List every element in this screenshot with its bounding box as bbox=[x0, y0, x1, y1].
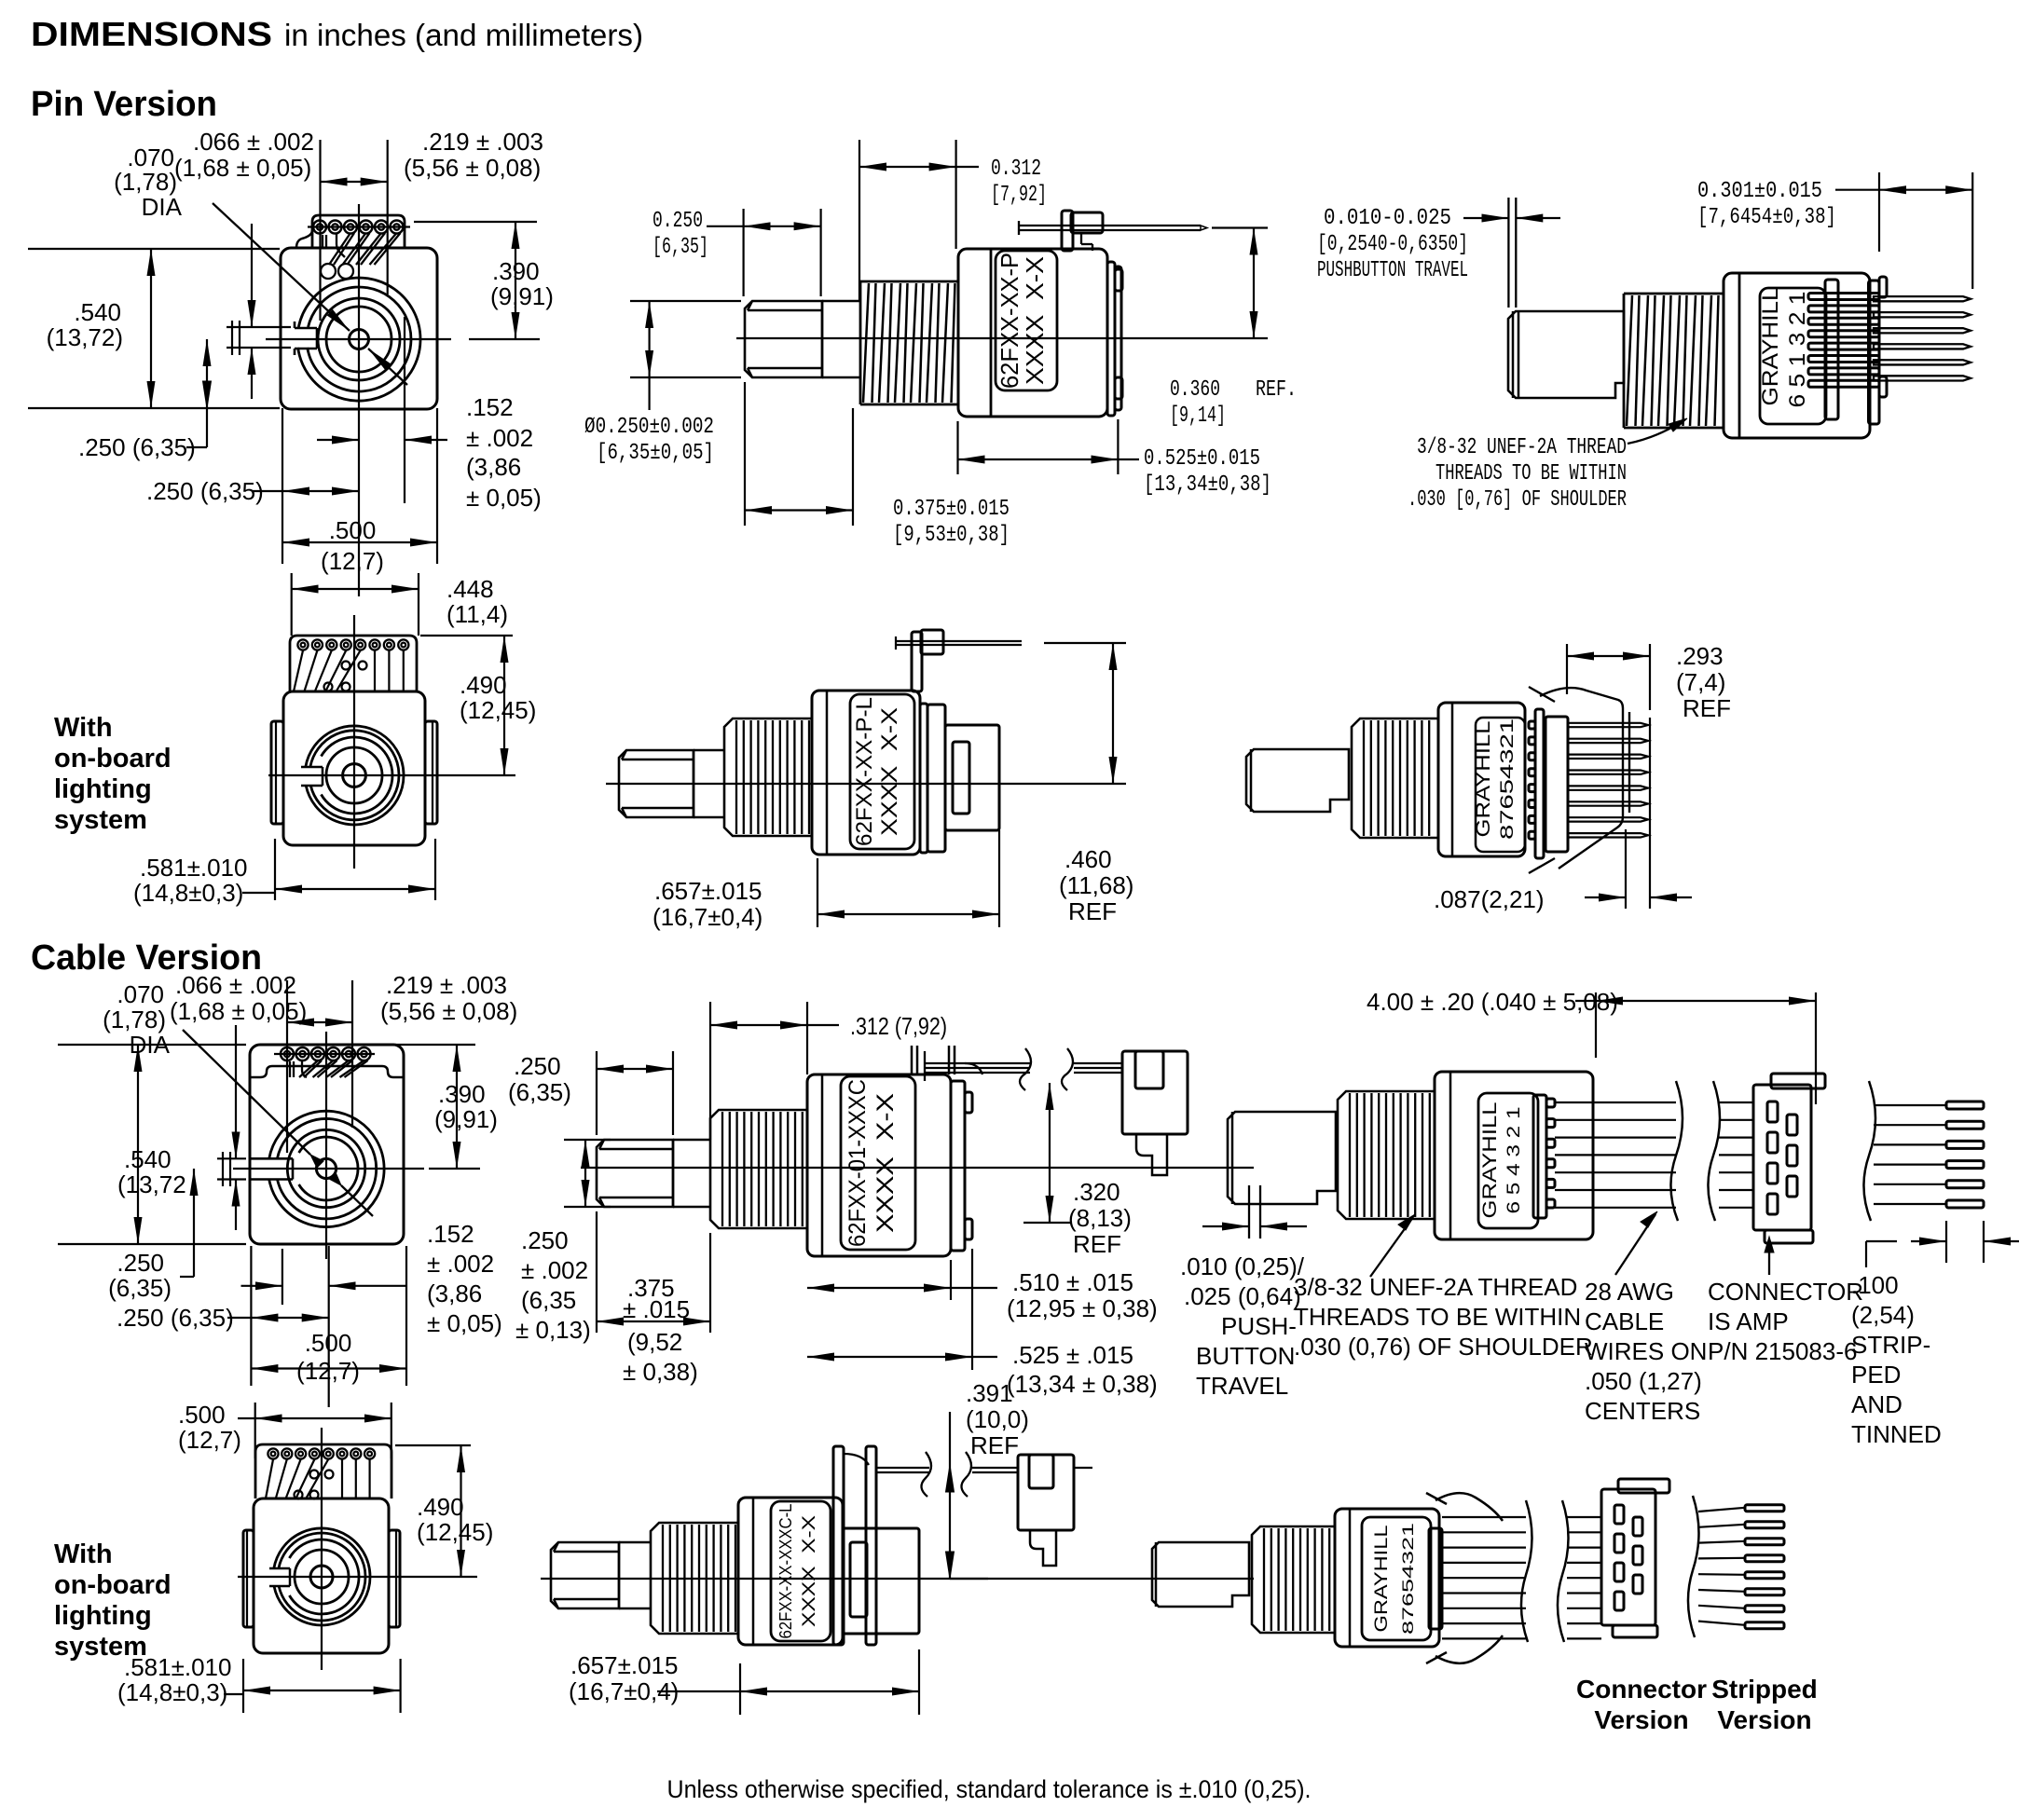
cable light right threads bbox=[1252, 1526, 1335, 1633]
pin right pin bars bbox=[1808, 294, 1879, 300]
light right clips bbox=[1540, 688, 1623, 869]
svg-text:GRAYHILL: GRAYHILL bbox=[1372, 1526, 1392, 1633]
dim .448 lines bbox=[291, 573, 293, 636]
svg-text:(7,4): (7,4) bbox=[1676, 668, 1725, 696]
svg-text:0.375±0.015: 0.375±0.015 bbox=[893, 497, 1010, 522]
cable front circles bbox=[316, 1158, 336, 1178]
dim .540 lines bbox=[28, 248, 280, 250]
light side right plates bbox=[920, 704, 927, 853]
cable light right body bbox=[1335, 1509, 1439, 1647]
svg-text:[6,35±0,05]: [6,35±0,05] bbox=[597, 441, 714, 466]
dim .320 lines bbox=[1049, 1083, 1051, 1223]
cable front top line bbox=[250, 1066, 404, 1077]
svg-text:TRAVEL: TRAVEL bbox=[1196, 1372, 1288, 1400]
pin side threads bbox=[860, 281, 958, 404]
dim 4.00 lines bbox=[1595, 992, 1597, 1058]
svg-text:[9,14]: [9,14] bbox=[1170, 404, 1226, 429]
svg-text:lighting: lighting bbox=[54, 1601, 152, 1631]
dim .500 lines bbox=[436, 408, 438, 564]
thread note row3 leader bbox=[1370, 1217, 1413, 1277]
cable light right wires bbox=[1442, 1516, 1526, 1518]
cable light side body bbox=[738, 1498, 843, 1645]
cable front keyway bbox=[250, 1157, 293, 1160]
svg-text:0.525±0.015: 0.525±0.015 bbox=[1144, 446, 1260, 472]
cable right cable wires bbox=[1555, 1102, 1676, 1103]
light right pins bbox=[1529, 721, 1535, 729]
pushbutton rod bbox=[1019, 225, 1201, 226]
svg-text:.152: .152 bbox=[427, 1220, 474, 1248]
light front pcb bbox=[290, 636, 417, 691]
svg-text:.500: .500 bbox=[178, 1401, 226, 1429]
svg-text:62FXX-XX-P-L: 62FXX-XX-P-L bbox=[852, 697, 877, 846]
cable front pins bbox=[281, 1047, 294, 1061]
svg-text:(13,72: (13,72 bbox=[117, 1170, 186, 1198]
cable side wire break bbox=[1020, 1048, 1031, 1090]
cable light right stripped wires bbox=[1698, 1508, 1745, 1512]
cable light side threads bbox=[651, 1523, 738, 1634]
svg-text:[7,6454±0,38]: [7,6454±0,38] bbox=[1697, 205, 1836, 230]
light side flat shaft bbox=[619, 750, 694, 817]
cable right connector bbox=[1753, 1085, 1811, 1230]
svg-text:.525 ± .015: .525 ± .015 bbox=[1012, 1341, 1133, 1369]
svg-text:(5,56 ± 0,08): (5,56 ± 0,08) bbox=[380, 997, 517, 1025]
cable light right wires 2 bbox=[1567, 1516, 1601, 1518]
svg-text:(2,54): (2,54) bbox=[1851, 1301, 1915, 1329]
svg-text:(16,7±0,4): (16,7±0,4) bbox=[652, 903, 762, 931]
svg-text:.460: .460 bbox=[1065, 845, 1112, 873]
svg-text:(14,8±0,3): (14,8±0,3) bbox=[117, 1678, 227, 1706]
svg-text:.581±.010: .581±.010 bbox=[124, 1653, 231, 1681]
cable side top hook bbox=[965, 1063, 982, 1074]
svg-text:.540: .540 bbox=[124, 1145, 172, 1173]
dim .460 lines bbox=[1044, 642, 1126, 644]
light front pcb pins bbox=[297, 639, 308, 650]
svg-text:.250 (6,35): .250 (6,35) bbox=[117, 1304, 234, 1332]
svg-text:Ø0.250±0.002: Ø0.250±0.002 bbox=[584, 415, 714, 440]
cable side riser posts bbox=[911, 1046, 913, 1074]
light front pcb vias bbox=[342, 662, 350, 670]
svg-text:(13,34 ± 0,38): (13,34 ± 0,38) bbox=[1007, 1370, 1158, 1398]
light side body bbox=[812, 691, 920, 855]
svg-text:THREADS TO BE WITHIN: THREADS TO BE WITHIN bbox=[1294, 1303, 1581, 1331]
pin right pins bbox=[1874, 296, 1971, 301]
dim 0.250 shaft lines bbox=[742, 209, 744, 296]
svg-text:.500: .500 bbox=[305, 1329, 352, 1357]
svg-text:.087(2,21): .087(2,21) bbox=[1434, 885, 1545, 913]
light front body bbox=[283, 691, 425, 845]
pin side label panel bbox=[996, 251, 1057, 390]
svg-text:[9,53±0,38]: [9,53±0,38] bbox=[893, 523, 1010, 548]
cable side shaft bbox=[673, 1139, 710, 1142]
cable dim .390 lines bbox=[391, 1044, 475, 1046]
cable front body bbox=[250, 1045, 404, 1244]
light right threads bbox=[1352, 718, 1438, 838]
thread note leader bbox=[1628, 424, 1678, 444]
cable side threads bbox=[710, 1110, 807, 1228]
svg-text:.312 (7,92): .312 (7,92) bbox=[850, 1012, 947, 1040]
svg-text:CENTERS: CENTERS bbox=[1585, 1397, 1700, 1425]
cable front centerlines bbox=[325, 1032, 327, 1259]
svg-text:(6,35): (6,35) bbox=[108, 1274, 172, 1302]
svg-text:0.360: 0.360 bbox=[1170, 377, 1220, 403]
dim .375 row3 lines bbox=[596, 1211, 598, 1333]
pin right body bbox=[1724, 273, 1870, 438]
svg-text:(11,68): (11,68) bbox=[1059, 871, 1133, 899]
svg-text:.448: .448 bbox=[446, 575, 494, 603]
svg-text:(12,45): (12,45) bbox=[460, 696, 536, 724]
svg-text:± .002: ± .002 bbox=[466, 424, 533, 452]
light right shaft bbox=[1246, 749, 1349, 812]
svg-text:.490: .490 bbox=[460, 671, 507, 699]
light front pcb traces bbox=[294, 650, 303, 691]
cable light side big block bbox=[843, 1528, 919, 1634]
pin front view traces bbox=[322, 235, 323, 248]
svg-text:.250: .250 bbox=[514, 1052, 561, 1080]
svg-text:(10,0): (10,0) bbox=[966, 1405, 1029, 1433]
cable dim .500 lines bbox=[405, 1246, 407, 1386]
light side pushbutton bbox=[912, 632, 922, 691]
cable right pin squares bbox=[1533, 1095, 1546, 1218]
light side big plate bbox=[945, 725, 999, 830]
svg-text:28 AWG: 28 AWG bbox=[1585, 1278, 1674, 1306]
svg-text:.510 ± .015: .510 ± .015 bbox=[1012, 1268, 1133, 1296]
svg-text:.025 (0,64): .025 (0,64) bbox=[1184, 1282, 1301, 1310]
svg-text:.490: .490 bbox=[417, 1493, 464, 1521]
dim .250 dia row3 lines bbox=[564, 1139, 611, 1141]
svg-text:(12,7): (12,7) bbox=[296, 1357, 360, 1385]
svg-text:GRAYHILL: GRAYHILL bbox=[1479, 1102, 1501, 1219]
svg-text:(9,91): (9,91) bbox=[434, 1105, 498, 1133]
svg-text:± .015: ± .015 bbox=[623, 1295, 690, 1323]
dim 0.375 lines bbox=[744, 382, 746, 526]
svg-text:6 5 1 3 2 1: 6 5 1 3 2 1 bbox=[1785, 292, 1810, 408]
svg-text:system: system bbox=[54, 805, 147, 835]
svg-text:P/N 215083-6: P/N 215083-6 bbox=[1708, 1337, 1857, 1365]
svg-text:REF: REF bbox=[1073, 1230, 1121, 1258]
cable light right break 1 bbox=[1521, 1500, 1532, 1642]
cable dim .250 bottom lines bbox=[227, 1317, 251, 1319]
svg-text:PED: PED bbox=[1851, 1361, 1901, 1389]
svg-text:TINNED: TINNED bbox=[1851, 1420, 1942, 1448]
cable light front flange right bbox=[389, 1530, 400, 1627]
svg-text:87654321: 87654321 bbox=[1498, 718, 1518, 840]
dim .657 row2 lines bbox=[817, 858, 818, 927]
cable light front body bbox=[254, 1498, 389, 1653]
cable light right pin plate bbox=[1429, 1528, 1442, 1629]
cable light front keyway bbox=[269, 1567, 290, 1570]
svg-text:(9,52: (9,52 bbox=[627, 1328, 682, 1356]
svg-text:.540: .540 bbox=[74, 298, 121, 326]
svg-text:.657±.015: .657±.015 bbox=[570, 1651, 678, 1679]
cable right stripped break bbox=[1863, 1081, 1875, 1221]
light side centerline bbox=[606, 783, 1126, 785]
dim 0.360 lines bbox=[1212, 226, 1268, 228]
svg-text:(9,91): (9,91) bbox=[490, 282, 554, 310]
pin side shaft bbox=[822, 300, 860, 303]
light right body bbox=[1438, 703, 1525, 856]
dim .500 row4 lines bbox=[238, 1417, 255, 1419]
svg-text:XXXX X-X: XXXX X-X bbox=[1021, 256, 1049, 385]
cable front traces bbox=[289, 1061, 291, 1077]
svg-text:REF: REF bbox=[1068, 897, 1117, 925]
svg-text:.066 ± .002: .066 ± .002 bbox=[193, 128, 314, 156]
svg-text:.390: .390 bbox=[438, 1080, 486, 1108]
svg-text:3/8-32 UNEF-2A THREAD: 3/8-32 UNEF-2A THREAD bbox=[1294, 1273, 1577, 1301]
light front flange right bbox=[425, 721, 437, 824]
dim dia 0.250 lines bbox=[630, 300, 741, 302]
pin side centerline bbox=[736, 337, 1268, 339]
light right pcb plate bbox=[1545, 717, 1568, 852]
svg-text:± 0,38): ± 0,38) bbox=[623, 1358, 698, 1386]
cable light side centerline bbox=[541, 1578, 1254, 1580]
dim .312 row3 lines bbox=[709, 1002, 711, 1140]
pin side right plates bbox=[1107, 262, 1115, 416]
dim 0.301 lines bbox=[1878, 172, 1880, 252]
svg-text:[6,35]: [6,35] bbox=[652, 235, 708, 260]
svg-text:BUTTON: BUTTON bbox=[1196, 1342, 1295, 1370]
svg-text:AND: AND bbox=[1851, 1390, 1903, 1418]
svg-text:.219 ± .003: .219 ± .003 bbox=[422, 128, 543, 156]
svg-text:(6,35): (6,35) bbox=[508, 1078, 571, 1106]
cable side label panel bbox=[841, 1076, 915, 1250]
svg-text:± 0,05): ± 0,05) bbox=[427, 1309, 502, 1337]
svg-text:DIA: DIA bbox=[142, 193, 183, 221]
svg-text:± .002: ± .002 bbox=[427, 1250, 494, 1278]
dim .250 row3 lines bbox=[596, 1051, 598, 1135]
svg-text:(11,4): (11,4) bbox=[446, 600, 508, 628]
cable side tabs bbox=[965, 1092, 972, 1113]
light side threads bbox=[724, 718, 812, 836]
light front centerlines bbox=[353, 615, 355, 869]
cable right break bbox=[1670, 1081, 1683, 1221]
cable right shaft bbox=[1228, 1112, 1336, 1204]
dim .581 row2 lines bbox=[242, 892, 275, 894]
light front flange left bbox=[271, 721, 283, 824]
light side shaft bbox=[694, 749, 724, 752]
svg-text:6 5 4 3 2 1: 6 5 4 3 2 1 bbox=[1504, 1107, 1524, 1214]
svg-text:XXXX X-X: XXXX X-X bbox=[877, 707, 902, 836]
svg-text:DIMENSIONS: DIMENSIONS bbox=[31, 15, 272, 53]
svg-text:0.301±0.015: 0.301±0.015 bbox=[1697, 179, 1822, 204]
cable side right plates bbox=[951, 1081, 965, 1251]
light front keyway bbox=[301, 766, 323, 769]
svg-text:.219 ± .003: .219 ± .003 bbox=[386, 971, 507, 999]
cable light right shaft bbox=[1152, 1542, 1249, 1607]
dim .152 lines bbox=[404, 317, 405, 503]
cable note 28awg leader bbox=[1615, 1214, 1655, 1275]
svg-text:Connector: Connector bbox=[1576, 1675, 1707, 1704]
svg-text:(1,78): (1,78) bbox=[103, 1006, 166, 1033]
cable light right connector bbox=[1601, 1489, 1655, 1625]
cable light front pcb bbox=[255, 1444, 391, 1498]
cable light side wires bbox=[876, 1467, 929, 1469]
svg-text:on-board: on-board bbox=[54, 1570, 172, 1600]
cable light front vias bbox=[310, 1471, 319, 1479]
svg-text:87654321: 87654321 bbox=[1399, 1523, 1417, 1635]
cable light right gap and break 2 bbox=[1558, 1500, 1569, 1642]
cable light front circles bbox=[310, 1566, 333, 1588]
svg-text:(14,8±0,3): (14,8±0,3) bbox=[133, 879, 243, 907]
dim .390 lines bbox=[414, 221, 537, 223]
pin front view vias bbox=[321, 264, 336, 279]
svg-text:.010 (0,25)/: .010 (0,25)/ bbox=[1180, 1252, 1305, 1280]
cable light side connector bbox=[1018, 1455, 1074, 1530]
pin front view concentric circles bbox=[350, 330, 369, 349]
cable side flat shaft bbox=[597, 1140, 673, 1207]
svg-text:in inches (and millimeters): in inches (and millimeters) bbox=[284, 18, 643, 52]
cable right grayhill bbox=[1478, 1093, 1538, 1228]
dim .066 lines bbox=[227, 326, 291, 328]
svg-text:.293: .293 bbox=[1676, 642, 1724, 670]
pin front view keyway notch bbox=[295, 327, 317, 330]
pin side flat shaft bbox=[745, 301, 822, 377]
svg-text:(12,45): (12,45) bbox=[417, 1518, 493, 1546]
svg-text:With: With bbox=[54, 713, 113, 743]
cable light front centerlines bbox=[321, 1428, 323, 1670]
svg-text:.320: .320 bbox=[1073, 1178, 1120, 1206]
svg-text:[7,92]: [7,92] bbox=[991, 183, 1047, 208]
svg-text:.050 (1,27): .050 (1,27) bbox=[1585, 1367, 1702, 1395]
cable light front traces bbox=[266, 1459, 273, 1498]
pin right label panel bbox=[1760, 288, 1826, 424]
cable light front pcb pins bbox=[268, 1448, 278, 1458]
svg-text:GRAYHILL: GRAYHILL bbox=[1758, 288, 1783, 406]
dim .087 lines bbox=[1625, 829, 1627, 909]
svg-text:.070: .070 bbox=[117, 980, 164, 1008]
svg-text:THREADS TO BE WITHIN: THREADS TO BE WITHIN bbox=[1435, 461, 1627, 486]
svg-text:(13,72): (13,72) bbox=[47, 323, 123, 351]
dim .581 row4 lines bbox=[224, 1693, 243, 1695]
cable light side label panel bbox=[771, 1501, 831, 1641]
light right pin plate bbox=[1535, 709, 1544, 858]
svg-text:REF: REF bbox=[970, 1431, 1019, 1459]
cable dia leader bbox=[183, 1030, 310, 1155]
svg-text:± 0,05): ± 0,05) bbox=[466, 484, 542, 512]
cable light side shaft bbox=[619, 1541, 651, 1544]
svg-text:Pin Version: Pin Version bbox=[31, 85, 217, 124]
svg-text:Unless otherwise specified, st: Unless otherwise specified, standard tol… bbox=[667, 1775, 1312, 1803]
svg-text:PUSHBUTTON TRAVEL: PUSHBUTTON TRAVEL bbox=[1317, 258, 1468, 283]
pin front view pins bbox=[313, 221, 326, 234]
svg-text:IS AMP: IS AMP bbox=[1708, 1307, 1789, 1335]
pushbutton travel gap lines bbox=[1507, 198, 1509, 308]
svg-text:.066 ± .002: .066 ± .002 bbox=[175, 971, 296, 999]
svg-text:XXXX X-X: XXXX X-X bbox=[800, 1515, 819, 1627]
cable light side bars bbox=[833, 1446, 844, 1645]
svg-text:(3,86: (3,86 bbox=[427, 1279, 482, 1307]
svg-text:(8,13): (8,13) bbox=[1068, 1204, 1132, 1232]
cable side centerline bbox=[581, 1167, 1254, 1169]
cable dim .152 lines bbox=[282, 1249, 283, 1305]
light side label panel bbox=[850, 694, 914, 849]
svg-text:.500: .500 bbox=[329, 516, 377, 544]
svg-text:CONNECTOR: CONNECTOR bbox=[1708, 1278, 1863, 1306]
dim 0.525 lines bbox=[956, 421, 958, 474]
cable light right break 3 bbox=[1688, 1496, 1699, 1637]
cable side body bbox=[807, 1074, 951, 1256]
dim 0.312 lines bbox=[859, 140, 860, 301]
svg-text:62FXX-01-XXXC: 62FXX-01-XXXC bbox=[845, 1079, 871, 1247]
cable light front flange left bbox=[243, 1530, 254, 1627]
cable dim .066 lines bbox=[217, 1157, 246, 1159]
svg-text:Version: Version bbox=[1594, 1705, 1688, 1734]
dim .490 row2 lines bbox=[420, 635, 513, 636]
cable side connector bbox=[1122, 1051, 1188, 1134]
svg-text:62FXX-XX-P: 62FXX-XX-P bbox=[996, 253, 1023, 389]
svg-text:3/8-32 UNEF-2A THREAD: 3/8-32 UNEF-2A THREAD bbox=[1417, 435, 1627, 460]
svg-text:.250 (6,35): .250 (6,35) bbox=[78, 433, 196, 461]
svg-text:.250: .250 bbox=[521, 1226, 569, 1254]
pin front view header cap bbox=[312, 215, 405, 248]
dim .657 row4 lines bbox=[739, 1663, 741, 1715]
dim .250 left lines bbox=[186, 446, 207, 448]
svg-text:(1,78): (1,78) bbox=[114, 168, 177, 196]
svg-text:With: With bbox=[54, 1539, 113, 1569]
cable side wires bbox=[925, 1062, 1030, 1064]
dim .510 lines bbox=[950, 1260, 952, 1300]
svg-text:.657±.015: .657±.015 bbox=[654, 877, 762, 905]
svg-text:62FXX-XX-XXXC-L: 62FXX-XX-XXXC-L bbox=[776, 1504, 795, 1639]
svg-text:WIRES ON: WIRES ON bbox=[1585, 1337, 1707, 1365]
svg-text:.100: .100 bbox=[1851, 1271, 1899, 1299]
svg-text:± 0,13): ± 0,13) bbox=[515, 1316, 591, 1344]
cable light side break bbox=[921, 1452, 931, 1497]
dim .250 bottom lines bbox=[252, 490, 282, 492]
svg-text:(6,35: (6,35 bbox=[521, 1286, 576, 1314]
svg-text:(12,7): (12,7) bbox=[178, 1426, 241, 1454]
dim .391 lines bbox=[949, 1412, 951, 1579]
light front circles bbox=[343, 764, 366, 787]
cable light right clips bbox=[1435, 1493, 1503, 1521]
svg-text:.581±.010: .581±.010 bbox=[140, 854, 247, 882]
svg-text:.030 (0,76) OF SHOULDER: .030 (0,76) OF SHOULDER bbox=[1294, 1333, 1593, 1361]
svg-text:0.010-0.025: 0.010-0.025 bbox=[1324, 206, 1451, 231]
dim .525 lines bbox=[971, 1249, 973, 1370]
svg-text:.250 (6,35): .250 (6,35) bbox=[146, 477, 264, 505]
dim .100 lines bbox=[1865, 1241, 1867, 1267]
svg-text:.152: .152 bbox=[466, 393, 514, 421]
svg-text:Stripped: Stripped bbox=[1711, 1675, 1818, 1704]
pin right threads bbox=[1624, 294, 1724, 428]
pin right tabs bbox=[1879, 277, 1887, 297]
dia leader line bbox=[213, 203, 350, 331]
pin right shaft bbox=[1508, 311, 1624, 398]
pin right pin plate bbox=[1825, 280, 1838, 419]
svg-text:REF.: REF. bbox=[1256, 377, 1297, 403]
svg-text:(5,56 ± 0,08): (5,56 ± 0,08) bbox=[404, 154, 541, 182]
svg-text:0.250: 0.250 bbox=[652, 209, 703, 234]
cable light right grayhill bbox=[1362, 1517, 1431, 1640]
svg-text:0.312: 0.312 bbox=[991, 157, 1041, 182]
svg-text:.391: .391 bbox=[966, 1379, 1013, 1407]
svg-text:Version: Version bbox=[1717, 1705, 1811, 1734]
cable dim .540 lines bbox=[58, 1044, 246, 1046]
svg-text:STRIP-: STRIP- bbox=[1851, 1331, 1930, 1359]
cable dim .250 left lines bbox=[180, 1276, 194, 1278]
svg-text:XXXX X-X: XXXX X-X bbox=[872, 1093, 899, 1233]
dim .293 lines bbox=[1566, 644, 1568, 694]
svg-text:.250: .250 bbox=[117, 1249, 164, 1277]
svg-text:CABLE: CABLE bbox=[1585, 1307, 1664, 1335]
cable right wires 2 bbox=[1719, 1102, 1753, 1103]
dim .490 row4 lines bbox=[395, 1444, 471, 1446]
pin side tabs bbox=[1115, 269, 1122, 291]
pin front view body bbox=[281, 248, 437, 409]
connector note leader bbox=[1768, 1243, 1770, 1275]
svg-text:.030 [0,76] OF SHOULDER: .030 [0,76] OF SHOULDER bbox=[1408, 487, 1627, 513]
svg-text:[13,34±0,38]: [13,34±0,38] bbox=[1144, 472, 1271, 498]
svg-text:REF: REF bbox=[1683, 694, 1731, 722]
